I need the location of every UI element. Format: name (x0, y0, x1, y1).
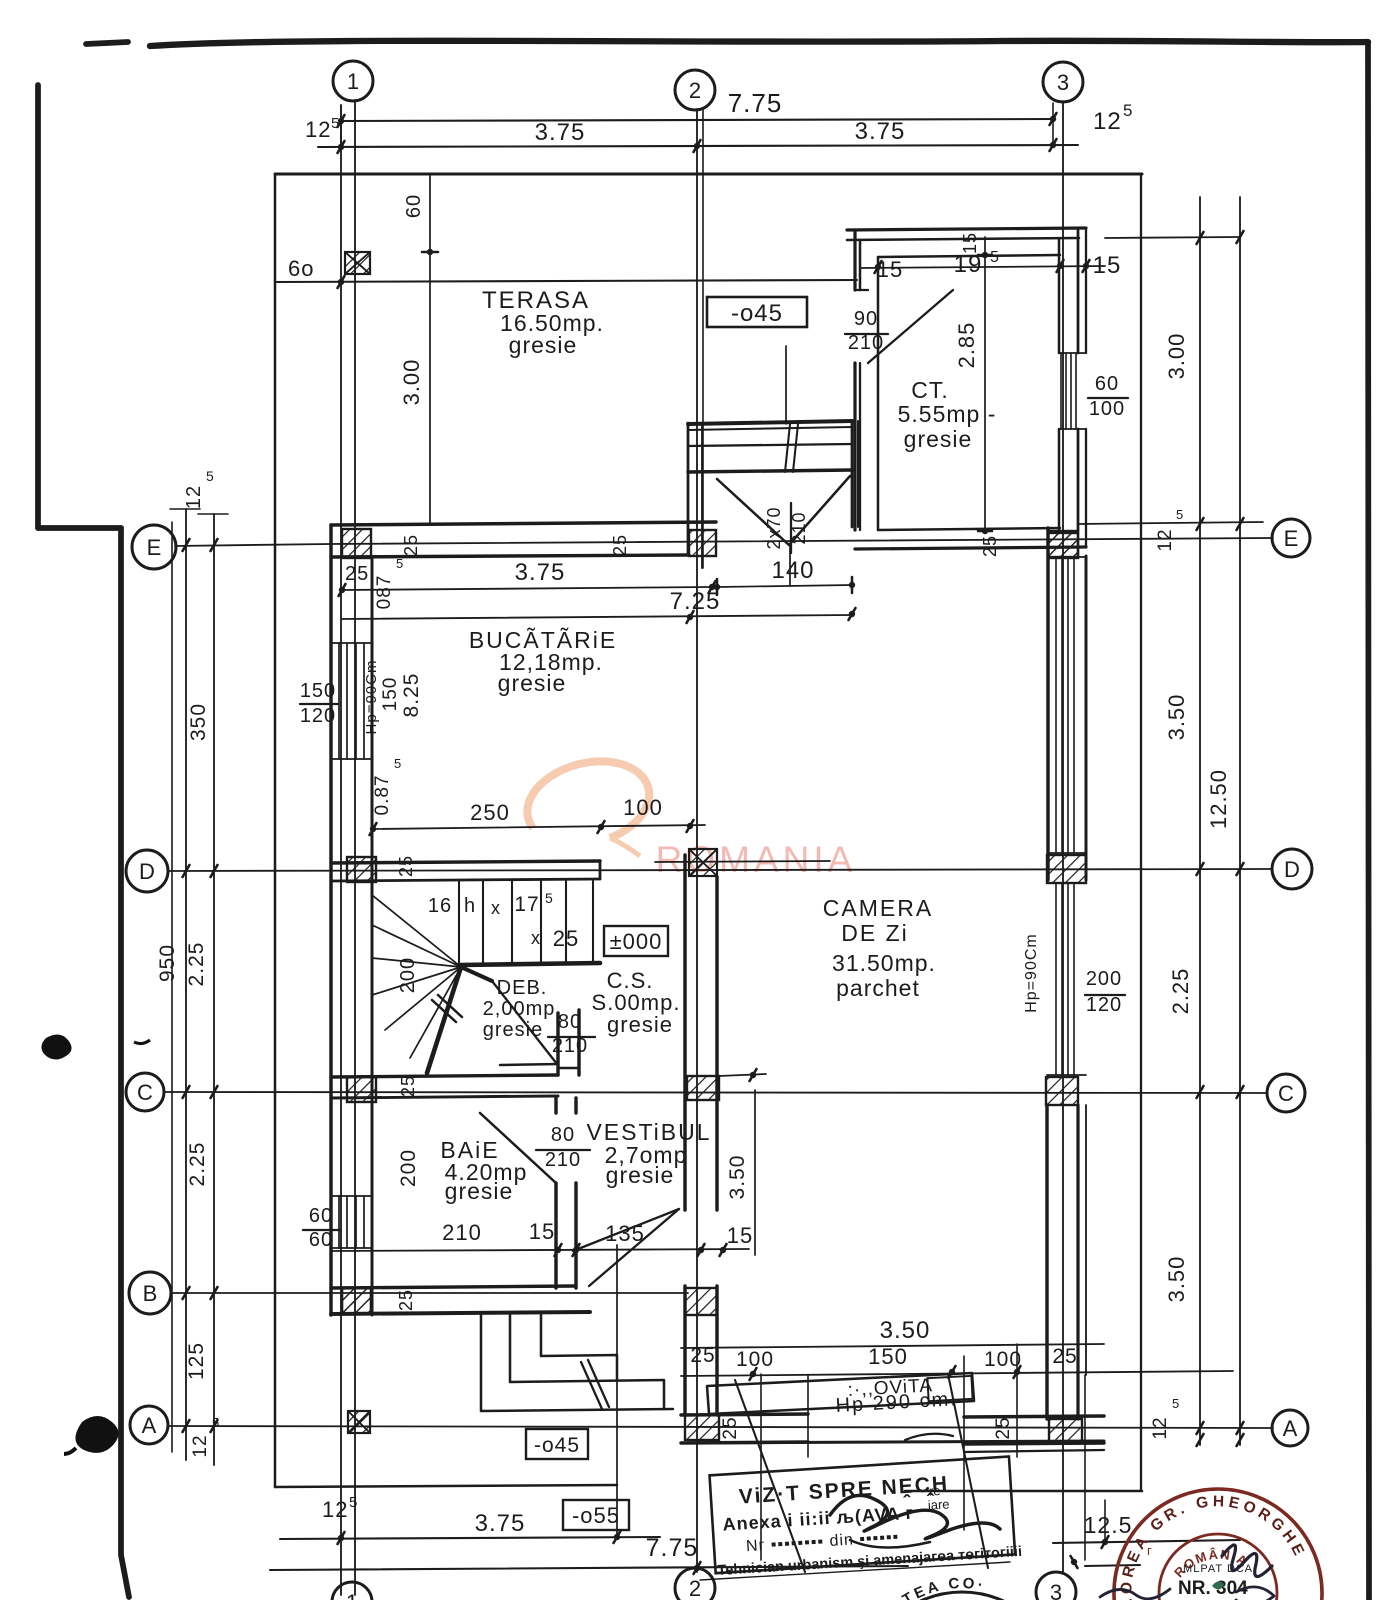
svg-text:±000: ±000 (610, 929, 663, 954)
svg-text:12.50: 12.50 (1206, 769, 1231, 829)
svg-text:3: 3 (1050, 1580, 1062, 1600)
svg-text:5.55mp -: 5.55mp - (898, 401, 997, 427)
svg-text:h: h (464, 895, 476, 917)
svg-text:CAMERA: CAMERA (823, 895, 933, 921)
svg-text:1: 1 (346, 1590, 358, 1600)
svg-text:NR. 304: NR. 304 (1178, 1578, 1248, 1599)
svg-text:140: 140 (771, 557, 814, 584)
svg-text:7.75: 7.75 (646, 1534, 699, 1562)
svg-text:D: D (1284, 857, 1300, 882)
svg-text:5: 5 (206, 468, 215, 484)
svg-text:25: 25 (398, 1075, 418, 1097)
svg-text:087: 087 (374, 575, 395, 610)
svg-text:7.25: 7.25 (670, 588, 721, 615)
svg-text:Hp=90Cm: Hp=90Cm (1023, 933, 1040, 1012)
svg-text:60: 60 (1095, 373, 1119, 395)
svg-text:gresie: gresie (509, 332, 578, 358)
svg-text:90: 90 (854, 308, 878, 330)
svg-text:2x70: 2x70 (764, 506, 784, 549)
svg-text:gresie: gresie (607, 1012, 673, 1037)
svg-text:3.00: 3.00 (1164, 333, 1189, 380)
svg-text:A: A (142, 1413, 157, 1438)
svg-text:DE Zi: DE Zi (841, 920, 909, 946)
svg-text:C: C (137, 1080, 153, 1105)
svg-text:5: 5 (990, 249, 1000, 266)
svg-text:2.85: 2.85 (954, 322, 979, 369)
svg-text:2.25: 2.25 (1168, 968, 1193, 1015)
svg-text:E: E (147, 535, 162, 560)
svg-text:gresie: gresie (445, 1178, 514, 1204)
svg-text:x: x (531, 928, 541, 948)
svg-text:parchet: parchet (836, 975, 920, 1001)
svg-text:5: 5 (212, 1415, 220, 1430)
svg-text:16: 16 (428, 895, 452, 917)
svg-text:25: 25 (553, 926, 579, 951)
svg-text:80: 80 (551, 1124, 575, 1146)
svg-text:200: 200 (1086, 968, 1122, 990)
svg-text:8.25: 8.25 (400, 673, 423, 718)
svg-text:80: 80 (558, 1011, 582, 1033)
svg-text:25: 25 (610, 534, 630, 556)
svg-text:12: 12 (322, 1497, 348, 1522)
svg-text:-o55: -o55 (572, 1503, 620, 1528)
svg-text:210: 210 (552, 1035, 588, 1057)
svg-text:2: 2 (689, 78, 701, 103)
svg-text:1: 1 (347, 69, 359, 94)
svg-text:12: 12 (1150, 1416, 1171, 1439)
svg-text:3.75: 3.75 (855, 118, 906, 145)
svg-text:-o45: -o45 (534, 1434, 580, 1457)
svg-text:3: 3 (1057, 70, 1069, 95)
svg-text:7.75: 7.75 (728, 88, 783, 118)
svg-text:3.75: 3.75 (475, 1510, 526, 1537)
svg-text:150: 150 (380, 677, 401, 712)
svg-text:5: 5 (1172, 1396, 1180, 1411)
svg-text:150: 150 (868, 1344, 908, 1369)
svg-text:2,00mp: 2,00mp (483, 998, 556, 1020)
svg-text:gresie: gresie (904, 426, 973, 452)
svg-text:5: 5 (349, 1494, 358, 1511)
svg-text:2: 2 (689, 1576, 701, 1600)
svg-text:12: 12 (1093, 108, 1122, 135)
svg-text:25: 25 (980, 535, 1000, 557)
svg-text:100: 100 (623, 795, 663, 820)
svg-text:15: 15 (877, 257, 903, 282)
svg-text:12: 12 (190, 1434, 211, 1457)
svg-text:gresie: gresie (606, 1162, 675, 1188)
svg-text:120: 120 (1086, 994, 1122, 1016)
svg-text:15: 15 (1093, 252, 1122, 279)
svg-text:25: 25 (1052, 1345, 1077, 1368)
svg-text:210: 210 (545, 1149, 581, 1171)
svg-text:0.87: 0.87 (372, 775, 393, 816)
svg-text:15: 15 (529, 1219, 555, 1244)
svg-text:200: 200 (397, 1149, 420, 1187)
svg-text:D: D (139, 859, 155, 884)
svg-text:12.5: 12.5 (1084, 1512, 1133, 1538)
svg-text:5: 5 (1176, 507, 1184, 522)
svg-text:5: 5 (545, 890, 554, 906)
svg-text:210: 210 (789, 511, 809, 544)
svg-text:12: 12 (183, 485, 205, 509)
svg-text:5: 5 (1123, 101, 1133, 120)
svg-text:3.50: 3.50 (880, 1317, 931, 1344)
svg-text:6o: 6o (288, 256, 314, 281)
svg-text:2.25: 2.25 (185, 942, 208, 987)
svg-text:gresie: gresie (498, 670, 567, 696)
svg-text:B: B (143, 1281, 158, 1306)
svg-text:3.75: 3.75 (535, 119, 586, 146)
svg-text:25: 25 (396, 855, 416, 877)
svg-text:3.75: 3.75 (515, 559, 566, 586)
svg-text:25: 25 (345, 563, 369, 585)
svg-text:x: x (491, 898, 501, 918)
svg-text:5: 5 (394, 756, 402, 771)
svg-text:25: 25 (401, 534, 421, 556)
svg-text:31.50mp.: 31.50mp. (832, 950, 936, 976)
svg-text:25: 25 (396, 1289, 416, 1311)
svg-text:350: 350 (187, 703, 210, 741)
svg-text:950: 950 (156, 944, 179, 982)
svg-text:15: 15 (727, 1223, 753, 1248)
svg-text:100: 100 (736, 1348, 774, 1371)
svg-text:3.50: 3.50 (1164, 1256, 1189, 1303)
svg-text:C: C (1278, 1081, 1294, 1106)
svg-text:A: A (1283, 1416, 1298, 1441)
svg-text:12: 12 (1155, 528, 1176, 551)
svg-text:210: 210 (442, 1220, 482, 1245)
svg-text:25: 25 (720, 1416, 741, 1439)
svg-text:3.00: 3.00 (399, 359, 424, 406)
svg-text:100: 100 (1089, 398, 1125, 420)
svg-text:250: 250 (470, 800, 510, 825)
svg-text:2.25: 2.25 (186, 1142, 209, 1187)
svg-text:17: 17 (514, 893, 539, 916)
svg-text:3.50: 3.50 (1164, 694, 1189, 741)
svg-text:60: 60 (403, 194, 425, 218)
svg-text:125: 125 (185, 1342, 208, 1380)
svg-text:CT.: CT. (911, 377, 949, 403)
svg-text:25: 25 (690, 1344, 715, 1367)
svg-text:25: 25 (993, 1416, 1014, 1439)
svg-text:gresie: gresie (483, 1019, 543, 1041)
svg-text:12: 12 (305, 117, 331, 142)
svg-text:DEB.: DEB. (497, 977, 548, 999)
svg-text:г: г (1147, 1543, 1153, 1558)
svg-text:5: 5 (331, 115, 340, 132)
svg-text:-o45: -o45 (731, 300, 783, 327)
svg-text:E: E (1284, 526, 1299, 551)
svg-text:3.50: 3.50 (726, 1155, 749, 1200)
